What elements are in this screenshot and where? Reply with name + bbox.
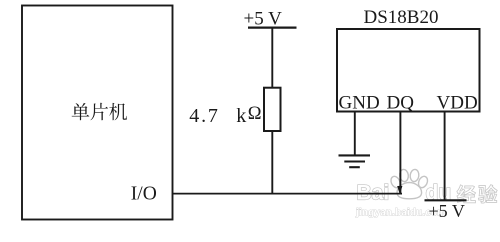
+5V supply bar (top) (248, 27, 297, 29)
wire VDD pin to +5V bar (444, 112, 446, 201)
wire I/O to DQ node (173, 193, 403, 195)
svg-text:VDD: VDD (437, 93, 478, 114)
+5V supply bar (bottom) (425, 199, 467, 201)
arrowhead at DQ wire junction (397, 186, 402, 195)
ground symbol (339, 155, 371, 167)
svg-text:4.7: 4.7 (189, 105, 219, 127)
watermark 经验 characters (457, 185, 497, 203)
svg-text:Ω: Ω (248, 104, 262, 124)
resistor R1 body (264, 88, 281, 131)
resistor value label 4.7 kΩ (189, 104, 261, 127)
svg-text:+5 V: +5 V (244, 9, 283, 30)
wire DQ pin to I/O wire (399, 112, 401, 194)
svg-text:I/O: I/O (131, 184, 157, 205)
watermark paw print (389, 169, 429, 199)
wire +5V bar to resistor (271, 28, 273, 88)
MCU box U1 单片机 (22, 6, 173, 220)
MCU label 单片机 (72, 103, 127, 121)
IC U2 DS18B20 box (337, 29, 480, 112)
svg-text:DS18B20: DS18B20 (364, 7, 439, 28)
watermark Baidu logo text (357, 182, 452, 205)
svg-text:k: k (236, 105, 246, 127)
svg-text:GND: GND (339, 93, 380, 114)
wire GND pin to ground (354, 112, 356, 155)
svg-text:DQ: DQ (387, 93, 415, 114)
svg-text:+5 V: +5 V (429, 201, 465, 221)
wire resistor to I/O wire junction (271, 131, 273, 194)
